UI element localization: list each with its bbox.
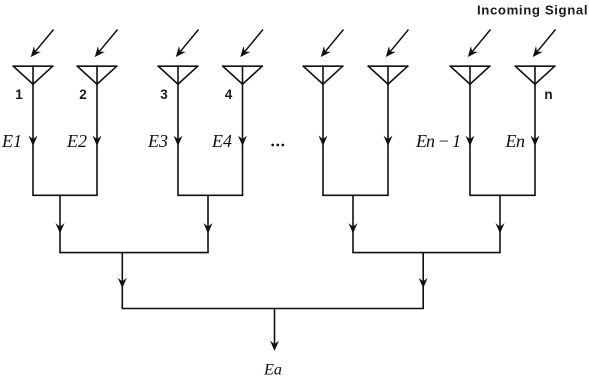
wire: drop from join 3-4 xyxy=(207,195,209,252)
svg-text:E2: E2 xyxy=(66,131,87,151)
incoming signal arrow into antenna 3 xyxy=(172,30,198,60)
incoming signal arrow into antenna 6 xyxy=(382,30,408,60)
wire: combiner join of antennas 1 and 2 xyxy=(32,194,98,196)
antenna 6 xyxy=(368,66,407,84)
wire: combiner join of antennas 5 and 6 xyxy=(322,194,389,196)
svg-text:E1: E1 xyxy=(1,131,22,151)
arrowhead on feed line 7 xyxy=(466,136,475,146)
arrowhead on drop 5-6 xyxy=(349,223,358,233)
svg-text:4: 4 xyxy=(225,87,233,102)
incoming signal arrow into antenna 5 xyxy=(317,30,343,60)
output arrow Ea xyxy=(270,309,279,352)
incoming signal arrow into antenna 7 xyxy=(464,30,490,60)
svg-text:1: 1 xyxy=(15,87,23,102)
arrowhead on drop 7-8 xyxy=(496,223,505,233)
svg-text:E3: E3 xyxy=(147,131,168,151)
antenna 1 xyxy=(13,66,52,84)
svg-text:E4: E4 xyxy=(211,131,232,151)
wire: second-level join (left half) xyxy=(59,252,209,254)
wire: drop from join 5-6 xyxy=(352,195,354,252)
arrowhead on drop 1-2 xyxy=(56,223,65,233)
arrowhead on feed line 6 xyxy=(384,136,393,146)
svg-text:Ea: Ea xyxy=(263,360,282,378)
wire: feed line from antenna 2 xyxy=(96,84,98,195)
antenna 5 xyxy=(303,66,342,84)
ellipsis (continuation dots) xyxy=(271,144,284,147)
wire: drop from second-level join (right) xyxy=(422,253,424,309)
arrowhead on drop 3-4 xyxy=(204,223,213,233)
antenna 7 xyxy=(450,66,489,84)
wire: feed line from antenna 8 xyxy=(534,84,536,195)
arrowhead on feed line 3 xyxy=(174,136,183,146)
incoming signal arrow into antenna 2 xyxy=(91,30,117,60)
arrowhead on second-level drop (right) xyxy=(419,278,428,288)
antenna 3 xyxy=(158,66,197,84)
svg-text:En − 1: En − 1 xyxy=(415,131,460,151)
incoming signal arrow into antenna 1 xyxy=(27,30,53,60)
arrowhead on feed line 4 xyxy=(238,136,247,146)
wire: feed line from antenna 3 xyxy=(177,84,179,195)
wire: drop from join 1-2 xyxy=(59,195,61,252)
antenna 4 xyxy=(223,66,262,84)
svg-text:n: n xyxy=(544,87,552,102)
svg-text:En: En xyxy=(505,131,525,151)
arrowhead on feed line 1 xyxy=(29,136,38,146)
arrowhead on feed line 5 xyxy=(319,136,328,146)
wire: second-level join (right half) xyxy=(352,252,501,254)
wire: combiner join of antennas 3 and 4 xyxy=(177,194,243,196)
incoming signal arrow into antenna 4 xyxy=(237,30,263,60)
svg-text:3: 3 xyxy=(160,87,168,102)
wire: feed line from antenna 4 xyxy=(242,84,244,195)
wire: drop from second-level join (left) xyxy=(121,253,123,309)
wire: feed line from antenna 5 xyxy=(322,84,324,195)
arrowhead on feed line 2 xyxy=(93,136,102,146)
wire: final combiner join xyxy=(122,308,425,310)
arrowhead on second-level drop (left) xyxy=(118,278,127,288)
svg-text:2: 2 xyxy=(79,87,87,102)
antenna 2 xyxy=(77,66,116,84)
wire: feed line from antenna 7 xyxy=(469,84,471,195)
wire: drop from join 7-8 xyxy=(499,195,501,252)
svg-text:Incoming Signal: Incoming Signal xyxy=(477,3,588,18)
wire: feed line from antenna 6 xyxy=(387,84,389,195)
arrowhead on feed line 8 xyxy=(531,136,540,146)
wire: combiner join of antennas 7 and 8 xyxy=(469,194,536,196)
antenna 8 xyxy=(515,66,554,84)
wire: feed line from antenna 1 xyxy=(32,84,34,195)
incoming signal arrow into antenna 8 xyxy=(529,30,555,60)
